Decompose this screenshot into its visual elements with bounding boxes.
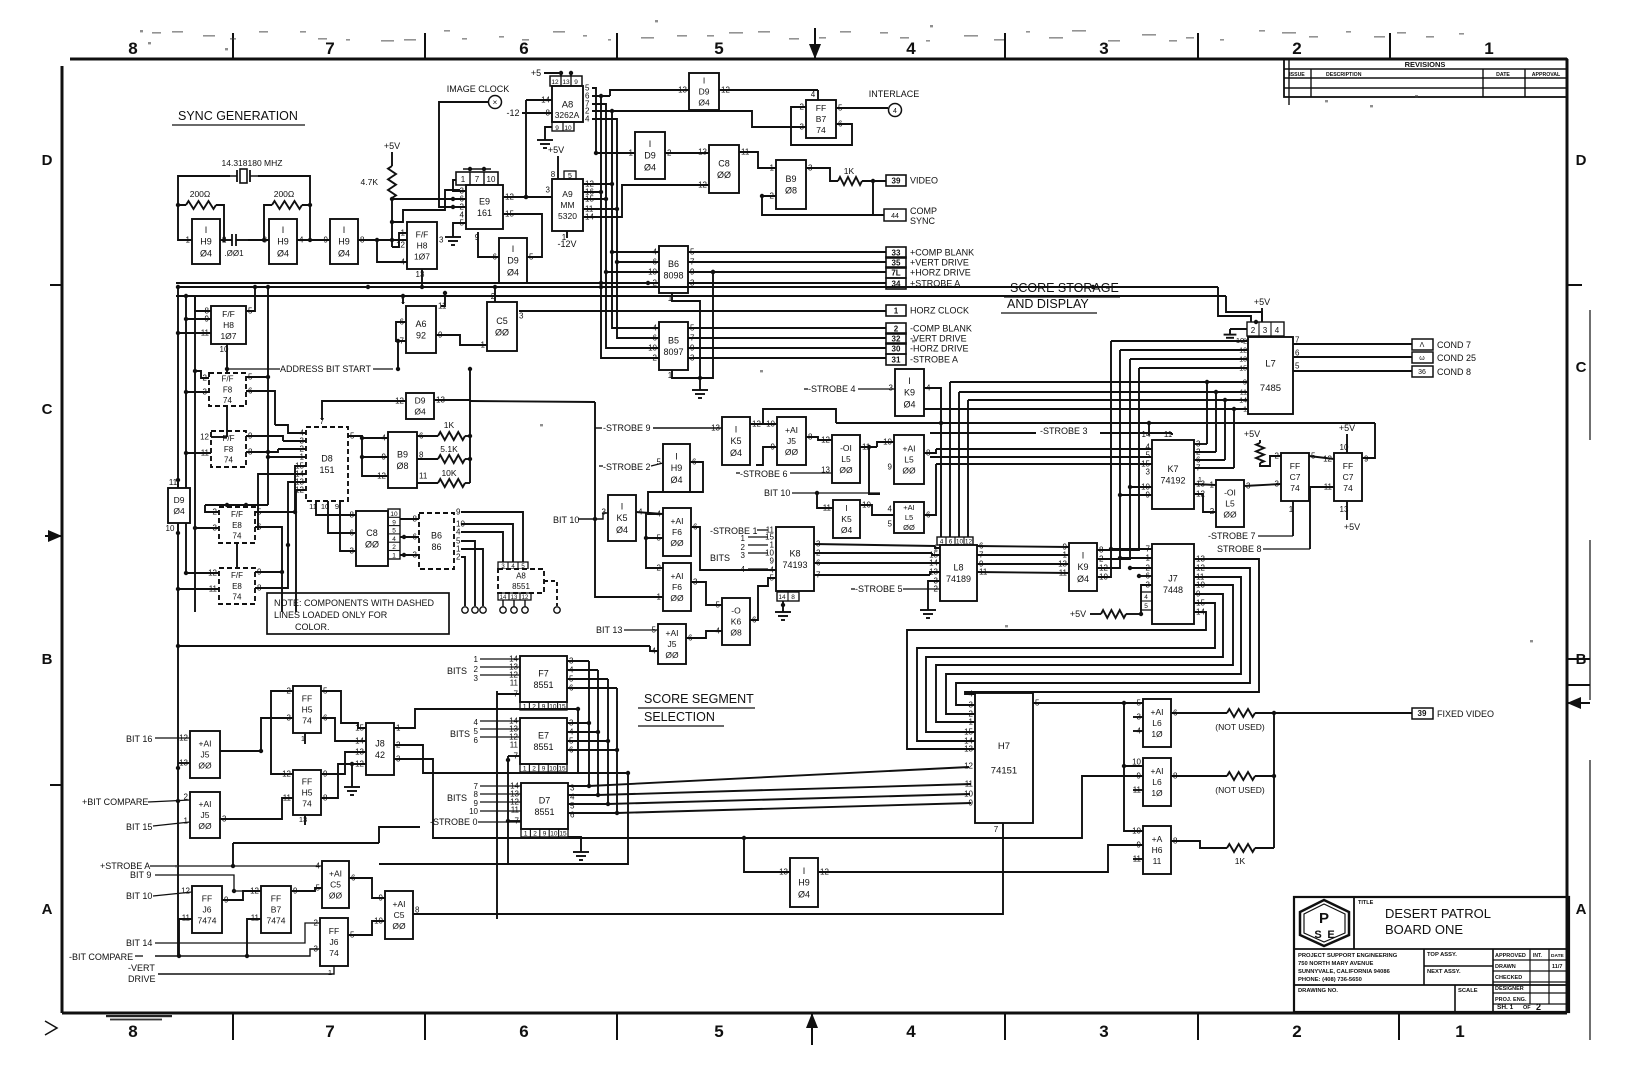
label -STROBE 3	[1040, 426, 1088, 436]
svg-text:12: 12	[964, 762, 973, 771]
svg-text:-STROBE 9: -STROBE 9	[603, 423, 651, 433]
svg-text:10: 10	[469, 807, 478, 816]
svg-text:+5V: +5V	[1344, 522, 1360, 532]
inverter K5 04 (bit10 right)	[823, 500, 872, 538]
svg-text:I: I	[649, 139, 652, 149]
svg-text:10: 10	[550, 831, 558, 838]
svg-text:5: 5	[888, 520, 893, 529]
svg-text:TITLE: TITLE	[1358, 900, 1374, 906]
svg-text:-STROBE 5: -STROBE 5	[855, 584, 903, 594]
svg-text:C7: C7	[1343, 472, 1354, 482]
svg-text:74: 74	[224, 455, 233, 464]
svg-text:5: 5	[714, 39, 723, 58]
wire J7 inputs from K9-2 (vert)	[1109, 547, 1152, 616]
svg-text:2: 2	[532, 704, 536, 711]
svg-text:IMAGE CLOCK: IMAGE CLOCK	[447, 84, 510, 94]
svg-text:FF: FF	[202, 893, 212, 903]
svg-text:STROBE 8: STROBE 8	[1217, 544, 1262, 554]
svg-text:36: 36	[1418, 369, 1426, 376]
svg-text:9: 9	[770, 557, 775, 566]
svg-text:D9: D9	[174, 495, 185, 505]
svg-text:8: 8	[128, 39, 137, 58]
wire A6 pins	[396, 291, 487, 371]
svg-text:+AI: +AI	[199, 738, 212, 748]
wire resistor common	[468, 400, 472, 483]
svg-text:4: 4	[969, 690, 974, 699]
wire -12 to A8 pin8	[506, 108, 552, 118]
svg-text:FIXED VIDEO: FIXED VIDEO	[1437, 709, 1494, 719]
svg-text:4: 4	[570, 793, 575, 802]
svg-text:BIT 9: BIT 9	[130, 870, 151, 880]
and J5 00 (bit15)	[184, 792, 227, 838]
svg-text:-12V: -12V	[557, 239, 576, 249]
svg-text:15: 15	[558, 766, 566, 773]
svg-text:Ø4: Ø4	[698, 98, 710, 108]
svg-text:3: 3	[519, 312, 524, 321]
svg-text:1: 1	[1455, 1022, 1464, 1041]
resistor 5.1K ladder	[417, 444, 470, 463]
svg-text:DRIVE: DRIVE	[128, 974, 156, 984]
svg-text:15: 15	[559, 831, 567, 838]
svg-text:B: B	[42, 651, 53, 668]
svg-text:Ø8: Ø8	[730, 628, 742, 638]
svg-text:H5: H5	[302, 704, 313, 714]
wire J6 pin9 to B7 pin12	[222, 891, 261, 900]
svg-text:K9: K9	[904, 388, 915, 398]
wire D8 inputs	[258, 425, 306, 590]
svg-text:12: 12	[551, 79, 559, 86]
svg-text:74: 74	[302, 716, 312, 726]
label +STROBE A / BIT 9	[100, 861, 322, 893]
svg-text:74: 74	[233, 592, 242, 601]
svg-text:-STROBE 1: -STROBE 1	[710, 526, 758, 536]
wire E9 pin15 to D9 pin5	[503, 214, 542, 257]
svg-text:SH. 1: SH. 1	[1497, 1004, 1514, 1011]
svg-text:4: 4	[1275, 326, 1280, 335]
svg-text:APPROVAL: APPROVAL	[1532, 72, 1561, 78]
svg-text:K5: K5	[730, 436, 741, 446]
svg-text:H8: H8	[417, 240, 428, 250]
output 39 VIDEO	[886, 175, 906, 186]
svg-text:SCALE: SCALE	[1458, 988, 1478, 994]
pin boxes C8-B6	[388, 509, 400, 560]
IC J8 42 decoder	[355, 723, 401, 775]
svg-text:C8: C8	[718, 158, 730, 168]
svg-text:L5: L5	[841, 454, 851, 464]
ground E9 pin5	[445, 180, 466, 245]
output 39 FIXED VIDEO	[1412, 708, 1494, 719]
svg-text:7474: 7474	[267, 916, 286, 926]
svg-text:+HORZ DRIVE: +HORZ DRIVE	[910, 268, 971, 278]
label BIT 10 bottom	[126, 891, 192, 901]
wire K9 pin4 to L8 bus	[924, 388, 941, 537]
svg-text:D: D	[1576, 152, 1587, 169]
svg-text:1K: 1K	[844, 166, 855, 176]
svg-text:+AI: +AI	[785, 425, 798, 435]
svg-text:30: 30	[892, 345, 901, 354]
label BIT 10 left	[553, 513, 608, 525]
svg-text:LINES LOADED ONLY FOR: LINES LOADED ONLY FOR	[274, 610, 388, 620]
IC A9 MM5320 sync generator	[546, 170, 595, 242]
wire D9-C8-B9 chain	[665, 152, 776, 168]
svg-text:E9: E9	[479, 196, 490, 206]
wire bus A8/A9 vertical bundle	[583, 88, 709, 358]
svg-text:Ø4: Ø4	[1077, 574, 1089, 584]
svg-text:8551: 8551	[533, 680, 553, 690]
svg-text:4: 4	[401, 258, 406, 267]
svg-text:D9: D9	[699, 86, 710, 96]
svg-text:K7: K7	[1167, 464, 1178, 474]
wire F6-1 out to K8	[691, 527, 776, 570]
svg-text:1: 1	[524, 831, 528, 838]
svg-text:FF: FF	[302, 776, 312, 786]
svg-text:4: 4	[474, 718, 479, 727]
inverter D9 04 (addr)	[395, 393, 445, 419]
zone letters left	[42, 152, 53, 918]
svg-text:5: 5	[568, 173, 572, 180]
svg-text:ØØ: ØØ	[670, 538, 684, 548]
IC C5 00 (top)	[481, 292, 524, 351]
svg-text:3: 3	[889, 384, 894, 393]
svg-text:11: 11	[419, 472, 428, 481]
wire F8-1 pins	[184, 285, 275, 425]
output 2 -COMP BLANK	[886, 323, 906, 334]
svg-text:ØØ: ØØ	[392, 921, 406, 931]
svg-text:1Ø: 1Ø	[1151, 729, 1163, 739]
svg-text:SYNC GENERATION: SYNC GENERATION	[178, 109, 298, 123]
svg-text:8551: 8551	[533, 742, 553, 752]
svg-text:FF: FF	[1343, 461, 1353, 471]
svg-text:3: 3	[741, 551, 746, 560]
svg-text:+5V: +5V	[1070, 609, 1086, 619]
svg-text:SCORE SEGMENT: SCORE SEGMENT	[644, 692, 754, 706]
svg-text:-VERT: -VERT	[128, 963, 155, 973]
svg-text:3: 3	[570, 784, 575, 793]
svg-text:Ø4: Ø4	[277, 248, 289, 258]
svg-text:Λ: Λ	[1420, 342, 1425, 349]
svg-text:(NOT USED): (NOT USED)	[1215, 722, 1265, 732]
inverter H9-2	[263, 219, 304, 264]
svg-text:+AI: +AI	[903, 443, 916, 453]
svg-text:4: 4	[906, 39, 916, 58]
svg-text:11: 11	[182, 914, 191, 923]
output COND 8	[1412, 366, 1471, 377]
wire D9 left edge	[176, 478, 180, 535]
svg-text:BIT 10: BIT 10	[553, 515, 579, 525]
svg-text:FF: FF	[271, 893, 281, 903]
svg-text:-12: -12	[506, 108, 519, 118]
svg-text:B9: B9	[785, 174, 796, 184]
svg-text:7474: 7474	[198, 916, 217, 926]
wire F8-2 pins	[184, 390, 283, 505]
wire L5 pin3 to C7 pin3	[1244, 484, 1281, 486]
svg-text:15: 15	[558, 704, 566, 711]
ground B6 B5 pin1	[672, 293, 708, 398]
IC B5 8097	[648, 322, 695, 380]
wire image clock	[439, 102, 488, 207]
svg-text:7: 7	[325, 39, 334, 58]
resistor 1K video	[806, 166, 886, 185]
svg-text:3: 3	[602, 508, 607, 517]
svg-text:I: I	[675, 452, 678, 462]
svg-text:10: 10	[549, 766, 557, 773]
svg-text:86: 86	[431, 542, 441, 552]
svg-text:9: 9	[574, 79, 578, 86]
svg-text:6: 6	[570, 811, 575, 820]
flip-flop H8 107 (top)	[396, 222, 444, 289]
label -STROBE 6	[736, 469, 832, 479]
resistor 200 ohm left	[178, 189, 224, 240]
svg-text:74: 74	[329, 948, 339, 958]
svg-text:3: 3	[439, 236, 444, 245]
wire F6-2 out to K6	[691, 582, 722, 605]
svg-text:2: 2	[1292, 1022, 1301, 1041]
svg-text:1: 1	[461, 175, 466, 184]
svg-text:ADDRESS BIT START: ADDRESS BIT START	[280, 364, 372, 374]
wire K9-2 outputs up to bus	[1097, 341, 1139, 577]
output 7 +HORZ DRIVE	[886, 267, 906, 278]
svg-text:5320: 5320	[558, 211, 577, 221]
svg-text:BIT 16: BIT 16	[126, 734, 152, 744]
svg-text:F/F: F/F	[222, 375, 234, 384]
wire J6-74 pin5 to C5-2 pin10	[348, 921, 385, 935]
svg-text:1: 1	[1198, 477, 1202, 484]
svg-text:2: 2	[456, 553, 461, 562]
and L6 10 (first)	[1133, 699, 1178, 748]
svg-text:7: 7	[994, 825, 999, 834]
svg-text:SELECTION: SELECTION	[644, 710, 715, 724]
svg-text:4: 4	[456, 528, 461, 537]
svg-text:-STROBE 2: -STROBE 2	[603, 462, 651, 472]
wire J7 outputs nest to H7	[907, 559, 1259, 749]
inverter H9 04 (bottom)	[779, 858, 829, 907]
and F6 00 (first)	[657, 508, 698, 556]
svg-text:10: 10	[564, 125, 572, 132]
svg-text:COND 7: COND 7	[1437, 340, 1471, 350]
IC K7 74192	[1141, 430, 1205, 509]
svg-text:F/F: F/F	[416, 229, 429, 239]
svg-text:PHONE: (408) 736-5650: PHONE: (408) 736-5650	[1298, 977, 1362, 983]
wire H9-bot pin12 to H6	[818, 845, 1143, 872]
svg-text:74192: 74192	[1160, 475, 1185, 485]
svg-text:K5: K5	[616, 513, 627, 523]
svg-text:AND DISPLAY: AND DISPLAY	[1007, 297, 1089, 311]
svg-text:92: 92	[416, 330, 426, 340]
wire D9-top to B7	[610, 90, 852, 145]
inverter H9-1	[186, 219, 227, 264]
svg-text:BITS: BITS	[710, 553, 730, 563]
svg-text:4: 4	[741, 565, 746, 574]
svg-text:6: 6	[474, 736, 479, 745]
svg-text:1K: 1K	[1235, 856, 1246, 866]
svg-text:D9: D9	[644, 151, 656, 161]
IC K8 74193	[765, 526, 821, 602]
svg-text:7485: 7485	[1260, 383, 1281, 394]
svg-text:+5V: +5V	[1254, 297, 1270, 307]
svg-text:1: 1	[523, 704, 527, 711]
output 1 HORZ CLOCK	[886, 305, 906, 316]
zone letters right	[1576, 152, 1587, 918]
svg-text:HORZ CLOCK: HORZ CLOCK	[910, 306, 969, 316]
wire L6-2 pin9 jog	[0, 0, 1, 1]
svg-text:L5: L5	[1225, 498, 1235, 508]
svg-text:5: 5	[1146, 451, 1151, 460]
svg-text:Ø8: Ø8	[785, 185, 797, 195]
svg-text:I: I	[621, 502, 624, 512]
svg-text:15: 15	[1239, 366, 1247, 373]
or L5 00 (right)	[1210, 480, 1251, 527]
svg-text:I: I	[845, 503, 847, 513]
svg-text:P: P	[1319, 910, 1329, 927]
svg-text:11: 11	[1153, 856, 1162, 866]
svg-text:10: 10	[166, 524, 175, 533]
svg-text:K5: K5	[841, 514, 852, 524]
IC L8 74189	[929, 537, 988, 601]
svg-text:Ø4: Ø4	[200, 248, 212, 258]
wire 8551 outputs to verticals	[567, 661, 971, 815]
svg-text:H8: H8	[223, 320, 234, 330]
wire B6-86 outputs	[461, 512, 523, 606]
and F6 00 (second)	[657, 563, 698, 611]
or L5 00 (strobe 6)	[821, 435, 871, 483]
svg-text:B6: B6	[668, 259, 679, 269]
flip-flop H5 74 (first)	[287, 686, 328, 744]
svg-text:INT.: INT.	[1533, 953, 1543, 959]
svg-text:J5: J5	[668, 639, 677, 649]
label -STROBE 5	[851, 584, 940, 594]
svg-text:7: 7	[320, 417, 325, 426]
svg-text:PROJ. ENG.: PROJ. ENG.	[1495, 997, 1527, 1003]
svg-text:3262A: 3262A	[555, 110, 580, 120]
wire H9-2 to H9-3	[248, 238, 330, 242]
svg-text:3: 3	[1099, 1022, 1108, 1041]
svg-text:A8: A8	[562, 99, 574, 110]
svg-text:11: 11	[510, 679, 519, 688]
svg-text:D7: D7	[539, 795, 551, 805]
svg-text:NEXT ASSY.: NEXT ASSY.	[1427, 969, 1461, 975]
svg-text:K8: K8	[789, 548, 800, 558]
svg-text:Ø4: Ø4	[730, 448, 742, 458]
svg-text:I: I	[343, 225, 346, 235]
svg-text:C8: C8	[366, 528, 378, 538]
svg-text:4: 4	[653, 324, 658, 333]
svg-text:+VERT DRIVE: +VERT DRIVE	[910, 258, 969, 268]
PSE logo	[1300, 900, 1349, 946]
svg-text:8: 8	[791, 594, 795, 601]
connector circles below	[462, 600, 560, 613]
svg-text:74193: 74193	[782, 560, 807, 570]
wire C5 pin2 up	[493, 285, 497, 302]
svg-text:1: 1	[184, 817, 189, 826]
inverter K9 04 (second)	[1058, 543, 1108, 592]
wire H9 pin6 down	[648, 462, 703, 514]
IC D7 8551	[510, 782, 575, 838]
svg-text:Ø4: Ø4	[841, 525, 853, 535]
svg-text:13: 13	[711, 424, 720, 433]
labels BITS 1-3	[447, 655, 520, 683]
svg-text:74: 74	[233, 531, 242, 540]
flip-flop H8 107 (second)	[201, 306, 253, 372]
svg-text:F/F: F/F	[223, 434, 235, 443]
+5V pullup J7	[1070, 609, 1141, 619]
wire long rails left verticals	[176, 285, 195, 956]
svg-text:L6: L6	[1152, 777, 1162, 787]
IC J7 7448	[1141, 544, 1205, 624]
svg-text:9: 9	[1243, 378, 1247, 387]
wire A8 pin6 to D9-top pin13	[592, 90, 689, 96]
inverter H9-3	[324, 219, 365, 264]
svg-text:-COMP BLANK: -COMP BLANK	[910, 324, 972, 334]
svg-text:8097: 8097	[663, 347, 683, 357]
INTERLACE terminal	[836, 89, 919, 117]
svg-text:ØØ: ØØ	[665, 650, 679, 660]
svg-text:2: 2	[894, 325, 899, 334]
svg-text:8: 8	[474, 790, 479, 799]
svg-text:2: 2	[657, 564, 662, 573]
resistor not used 2	[1171, 772, 1276, 795]
wire horz clock	[519, 310, 886, 312]
svg-text:B6: B6	[431, 530, 442, 540]
heading SCORE SEGMENT SELECTION	[638, 692, 755, 726]
svg-text:11: 11	[510, 741, 519, 750]
label -STROBE 0	[430, 817, 521, 827]
wire E8-1 pins	[193, 503, 297, 568]
svg-text:ØØ: ØØ	[365, 539, 379, 549]
IC A8 8551 (dashed)	[498, 562, 557, 606]
svg-text:B: B	[1576, 651, 1587, 668]
flip-flop B7 74 (interlace)	[800, 90, 843, 138]
svg-text:.ØØ1: .ØØ1	[224, 249, 244, 258]
svg-text:9: 9	[1364, 455, 1369, 464]
IC L7 7485 comparator	[1236, 322, 1300, 414]
svg-text:-STROBE 3: -STROBE 3	[1040, 426, 1088, 436]
svg-text:L6: L6	[1152, 718, 1162, 728]
wire 8551 left rails	[497, 691, 521, 919]
svg-text:H9: H9	[338, 237, 350, 247]
wire D8 pin5 to B9	[348, 436, 388, 476]
svg-text:13: 13	[698, 148, 707, 157]
scan artifacts top margin	[140, 20, 1533, 867]
svg-text:7L: 7L	[891, 269, 900, 278]
svg-text:ØØ: ØØ	[670, 593, 684, 603]
IC E9 161 counter	[456, 167, 514, 242]
capacitor .001	[220, 234, 248, 258]
svg-text:74: 74	[1343, 483, 1353, 493]
svg-text:2: 2	[1536, 1002, 1541, 1012]
heading SYNC GENERATION	[172, 109, 305, 125]
svg-text:Ø4: Ø4	[616, 525, 628, 535]
svg-text:14.318180 MHZ: 14.318180 MHZ	[222, 158, 283, 168]
svg-text:151: 151	[319, 465, 334, 475]
svg-text:J6: J6	[203, 904, 212, 914]
output 33 +COMP BLANK	[886, 247, 906, 258]
svg-text:3: 3	[1146, 468, 1151, 477]
svg-text:MM: MM	[560, 200, 574, 210]
svg-text:74: 74	[1290, 483, 1300, 493]
svg-text:1: 1	[186, 236, 191, 245]
svg-text:A8: A8	[516, 572, 526, 581]
wire K8 outputs to L8	[814, 544, 940, 575]
svg-text:12: 12	[396, 241, 405, 250]
wire H6 pins	[0, 0, 1, 1]
output 31 -STROBE A	[886, 354, 906, 365]
svg-text:ØØ: ØØ	[717, 170, 731, 180]
svg-text:VIDEO: VIDEO	[910, 176, 938, 186]
+5V L7	[1254, 297, 1270, 324]
svg-text:8098: 8098	[663, 270, 683, 280]
wire B5 inputs from bundle	[700, 270, 715, 378]
svg-text:-BIT COMPARE: -BIT COMPARE	[69, 952, 133, 962]
